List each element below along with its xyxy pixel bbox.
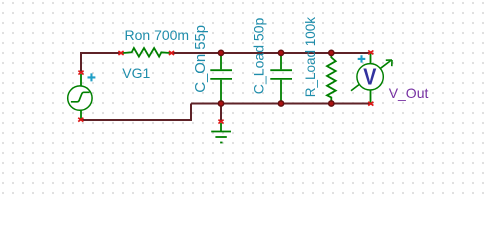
junction dot top R_Load <box>328 50 335 57</box>
junction dot bottom C_On <box>218 100 225 107</box>
terminal x (VG1 bottom) <box>78 118 83 122</box>
VG1 plus polarity mark <box>88 73 96 81</box>
terminal x (voltmeter bottom) <box>368 102 373 106</box>
terminal x (ground) <box>218 120 223 124</box>
junction dot bottom R_Load <box>328 100 335 107</box>
svg-text:C_On 55p: C_On 55p <box>193 25 209 93</box>
terminal x (Ron left) <box>118 51 123 55</box>
wire top rail from Ron right terminal to voltmeter corner <box>173 52 371 54</box>
voltmeter plus polarity mark <box>358 55 366 62</box>
svg-text:V_Out: V_Out <box>389 85 429 101</box>
svg-text:R_Load 100k: R_Load 100k <box>303 17 318 98</box>
svg-text:VG1: VG1 <box>122 65 150 81</box>
svg-text:Ron 700m: Ron 700m <box>125 27 190 43</box>
capacitor C_On (vertical) <box>210 53 232 104</box>
wire ground stub <box>220 104 222 121</box>
voltmeter U1 V_Out <box>351 54 392 104</box>
capacitor C_Load (vertical) <box>270 53 292 104</box>
wire top rail from VG1 to Ron left terminal <box>81 53 120 72</box>
resistor R_Load (vertical zigzag) <box>327 53 336 104</box>
ground symbol <box>211 123 231 143</box>
svg-text:C_Load 50p: C_Load 50p <box>251 17 267 94</box>
terminal x (Ron right) <box>169 51 174 55</box>
svg-text:V: V <box>363 63 377 90</box>
wire bottom rail from step to voltmeter bottom <box>191 103 371 105</box>
junction dot top C_On <box>218 50 225 57</box>
wire bottom-left rail from VG1 bottom to step <box>81 104 191 121</box>
resistor R1 Ron (horizontal zigzag) <box>123 48 170 57</box>
junction dot top C_Load <box>278 50 285 57</box>
voltage source VG1 <box>68 74 92 119</box>
junction dot bottom C_Load <box>278 100 285 107</box>
terminal x (voltmeter top) <box>368 51 373 55</box>
terminal x (VG1 top) <box>78 71 83 75</box>
